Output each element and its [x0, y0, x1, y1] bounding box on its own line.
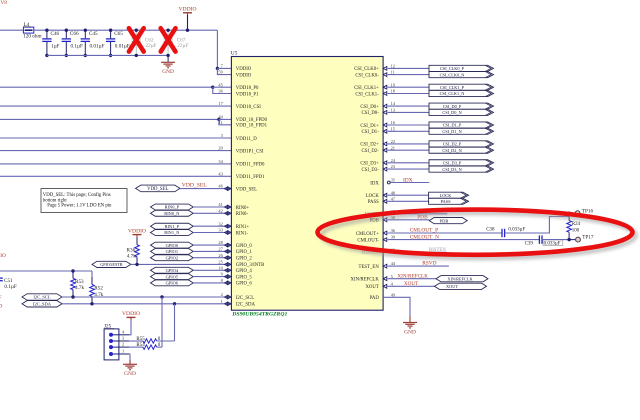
port CSI_D0_P — [429, 103, 494, 109]
connector J25 — [104, 329, 129, 360]
junction dot C65 bottom — [109, 54, 112, 57]
port CSI_CLK1_P — [429, 84, 494, 90]
svg-text:CSI_D0+: CSI_D0+ — [360, 105, 379, 110]
svg-text:DS90UB954TRGZRQ1: DS90UB954TRGZRQ1 — [231, 312, 287, 317]
pin 36 CMLOUT+ label — [356, 228, 396, 237]
svg-text:IO: IO — [0, 253, 6, 259]
pin arrow CSI_D1_N — [383, 129, 387, 133]
wire elbow to pin 59 VDDIO — [217, 68, 231, 74]
pin arrow RIN1_N — [224, 231, 228, 235]
pin arrow RIN0_P — [224, 205, 228, 209]
svg-text:CSI_D3+: CSI_D3+ — [360, 162, 379, 167]
junction dot VDD18 pair — [211, 86, 214, 89]
svg-text:CMLOUT+: CMLOUT+ — [356, 232, 379, 237]
pin 23 CSI_D3- label — [361, 164, 395, 173]
pin 59 VDDIO label — [218, 70, 251, 79]
pin 13 CSI_D0- label — [361, 108, 395, 117]
pin arrow CSI_D2_N — [383, 148, 387, 152]
port RIN0_N — [151, 210, 194, 216]
svg-text:GPIO_1: GPIO_1 — [236, 250, 253, 255]
svg-text:C38: C38 — [486, 227, 495, 232]
pin arrow GPIO2 — [224, 256, 228, 260]
pin arrow LOCK — [383, 193, 387, 197]
svg-text:1µF: 1µF — [51, 43, 60, 49]
junction dot C62 bottom — [135, 54, 138, 57]
pin arrow GPIO1 — [224, 250, 228, 254]
junction dot C67 top — [166, 29, 169, 32]
pin 8 GPIO_6 label — [221, 278, 253, 287]
wire PAD to ground — [383, 297, 410, 317]
wire VDD11_FPD0 rail to pin 34 — [0, 163, 231, 165]
junction dot C46 top — [45, 29, 48, 32]
svg-text:U5: U5 — [231, 51, 238, 57]
svg-text:CSI_CLK1_P: CSI_CLK1_P — [440, 85, 465, 90]
svg-text:VDD_18_FPD1: VDD_18_FPD1 — [236, 124, 268, 129]
junction dot C67 bottom — [166, 54, 169, 57]
svg-text:PASS: PASS — [440, 199, 451, 204]
pin arrow RIN1_P — [224, 224, 228, 228]
svg-text:2: 2 — [122, 342, 124, 347]
wire GPIO4 to chip — [193, 269, 224, 271]
pin 47 PASS label — [368, 196, 396, 205]
pin arrow PASS — [383, 199, 387, 203]
port GPIO3/INTB — [92, 261, 131, 267]
svg-text:22: 22 — [391, 139, 395, 144]
svg-text:C66: C66 — [70, 31, 79, 37]
svg-text:2: 2 — [221, 292, 223, 297]
svg-text:GPIO2: GPIO2 — [166, 255, 178, 260]
svg-text:GPIO1: GPIO1 — [166, 249, 178, 254]
pin arrow GPIO5 — [224, 275, 228, 279]
svg-text:R24: R24 — [572, 222, 581, 227]
pin 39 CMLOUT- label — [357, 235, 395, 244]
pin arrow GPIO4 — [224, 268, 228, 272]
junction dot R36 on GPIO3 net — [135, 263, 138, 266]
pin arrow VDD_SEL — [224, 187, 228, 191]
pin 49 PAD label — [370, 292, 396, 301]
pin 1 I2C_SDA label — [221, 299, 256, 308]
svg-text:120 ohm: 120 ohm — [23, 34, 41, 40]
ground symbol J25 — [123, 360, 137, 377]
wire VDD11_D rail to pin 3 — [0, 137, 231, 139]
wire to TP17 — [569, 239, 575, 241]
wire CMLOUT_N from C39 to TP17 — [542, 239, 569, 241]
pin arrow XOUT — [383, 284, 387, 288]
pin 26 GPIO_2 label — [218, 253, 252, 262]
wire R55 up to SDA — [174, 304, 176, 341]
svg-text:RIN0+: RIN0+ — [236, 206, 250, 211]
junction dot R53 bottom on SCL — [71, 295, 74, 298]
wire CMLOUT_N to C39 — [388, 239, 540, 241]
wire GPIO1 to chip — [193, 250, 224, 252]
pin 16 CSI_D1+ label — [360, 120, 395, 129]
svg-text:CSI_CLK0_N: CSI_CLK0_N — [440, 72, 465, 77]
wire elbow to pin 36 VDD18_P1 — [213, 87, 232, 93]
junction dot C45 top — [84, 29, 87, 32]
pin 41 RIN0+ label — [218, 202, 249, 211]
pin arrow GPIO6 — [224, 281, 228, 285]
port XIN/REFCLK — [436, 276, 488, 282]
svg-text:12: 12 — [391, 64, 395, 69]
svg-text:GND: GND — [404, 329, 416, 335]
pin 30 BISTEN label — [362, 247, 396, 256]
red X over C62 — [129, 28, 144, 51]
svg-text:GPIO4: GPIO4 — [166, 268, 179, 273]
pin 36 VDD18_P1 label — [218, 89, 259, 98]
wire GPIO5 to chip — [193, 276, 224, 278]
wire BISTEN (DNI) — [396, 251, 447, 253]
svg-text:GPIO6: GPIO6 — [166, 281, 179, 286]
junction dot C45 bottom — [84, 54, 87, 57]
svg-text:L4: L4 — [24, 22, 30, 28]
svg-text:GPIO_4: GPIO_4 — [236, 269, 253, 274]
resistor R55 0 ohm — [129, 339, 175, 343]
wire VDD11_FPD1 rail to pin 43 — [0, 175, 231, 177]
port CSI_D2_N — [429, 147, 494, 153]
power symbol VDDIO for R36 — [128, 228, 146, 237]
port I2C_SDA — [22, 301, 62, 307]
svg-text:GPIO_5: GPIO_5 — [236, 275, 253, 280]
svg-text:100: 100 — [572, 228, 580, 233]
pin 5 XIN/REFCLK label — [351, 274, 394, 283]
svg-text:CSI_D2_N: CSI_D2_N — [442, 148, 461, 153]
wire VDD_18_FPD0 rail — [0, 118, 219, 120]
svg-text:0.1µF: 0.1µF — [4, 284, 16, 290]
svg-text:D: D — [0, 303, 2, 309]
svg-text:C39: C39 — [525, 242, 534, 247]
svg-text:C45: C45 — [89, 31, 98, 37]
wire PASS — [388, 200, 429, 202]
wire VDD_SEL to pin 46 — [180, 188, 224, 190]
wire stub pin 45 — [213, 86, 232, 88]
svg-text:R55: R55 — [136, 337, 145, 342]
pin 25 GPIO_3/INTB label — [218, 260, 264, 269]
pin arrow CSI_CLK1_P — [383, 85, 387, 89]
wire decoupling ground rail — [47, 54, 168, 56]
wire J25 pin1 to ground — [129, 354, 130, 364]
capacitor C39 0.033uF — [525, 235, 563, 246]
pin 35 IDX label — [370, 178, 396, 187]
svg-text:GPIO_6: GPIO_6 — [236, 282, 253, 287]
pin arrow PDB — [383, 218, 387, 222]
wire RIN0_N to chip — [193, 212, 224, 214]
resistor R36 4.7k pull-up — [135, 237, 140, 264]
capacitor C62 22uF (DNI, greyed) — [132, 30, 157, 55]
svg-text:VDD18_P1: VDD18_P1 — [236, 92, 259, 97]
svg-text:21: 21 — [391, 145, 395, 150]
svg-text:I2C_SCL: I2C_SCL — [236, 296, 254, 301]
capacitor C66 0.1µF — [62, 30, 83, 55]
capacitor C45 0.01µF — [81, 30, 105, 55]
wire GPIO0 to chip — [193, 244, 224, 246]
port I2C_SCL — [22, 294, 62, 300]
port CSI_D1_N — [429, 128, 494, 134]
svg-text:4.7k: 4.7k — [127, 253, 136, 259]
wire LOCK — [388, 194, 429, 196]
pin 17 VDD18_CSI label — [218, 101, 261, 110]
pin arrow CSI_D3_P — [383, 161, 387, 165]
capacitor C67 22uF (DNI, greyed) — [163, 30, 188, 55]
wire CSI_CLK1_P — [388, 86, 429, 88]
wire CSI_D1_P — [388, 124, 429, 126]
ferrite bead L4 — [23, 27, 33, 33]
svg-text:VDD11_D: VDD11_D — [236, 137, 257, 142]
svg-text:VDDIO: VDDIO — [236, 73, 252, 78]
svg-text:CSI_D1+: CSI_D1+ — [360, 124, 379, 129]
svg-text:CSI_CLK1_N: CSI_CLK1_N — [440, 91, 465, 96]
wire VDDIO stem — [187, 15, 189, 30]
svg-text:XIN/REFCLK: XIN/REFCLK — [447, 276, 473, 281]
svg-text:CSI_D0_N: CSI_D0_N — [442, 110, 461, 115]
pin 15 CSI_D1- label — [361, 126, 395, 135]
svg-text:CSI_D2-: CSI_D2- — [361, 149, 379, 154]
pin arrow CSI_CLK0_N — [383, 73, 387, 77]
pin 14 CSI_D0+ label — [360, 101, 395, 110]
svg-text:GND: GND — [162, 69, 174, 75]
capacitor C46 1µF — [42, 30, 59, 55]
wire CSI_D3_N — [388, 168, 429, 170]
pin bubble IDX — [387, 181, 390, 184]
pin arrow CSI_D1_P — [383, 123, 387, 127]
junction dot C65 top — [109, 29, 112, 32]
svg-text:R52: R52 — [94, 286, 103, 292]
svg-text:GND: GND — [124, 371, 136, 377]
pin 44 TEST_EN label — [359, 261, 396, 270]
svg-text:4.7k: 4.7k — [75, 285, 84, 291]
pin arrow RIN0_N — [224, 211, 228, 215]
pin arrow CSI_D3_N — [383, 167, 387, 171]
svg-text:22µF: 22µF — [146, 43, 157, 49]
svg-text:I2C_SDA: I2C_SDA — [33, 302, 52, 307]
svg-text:XIN/REFCLK: XIN/REFCLK — [351, 278, 380, 283]
pin 24 CSI_D3+ label — [360, 158, 395, 167]
svg-text:XOUT: XOUT — [365, 285, 378, 290]
pin arrow CSI_D0_P — [383, 104, 387, 108]
wire CSI_D2_N — [388, 149, 429, 151]
port CSI_CLK0_P — [429, 65, 494, 71]
port CSI_CLK1_N — [429, 90, 494, 96]
svg-text:F: F — [0, 295, 2, 301]
pin 27 GPIO_1 label — [218, 247, 252, 256]
svg-text:CSI_D3_N: CSI_D3_N — [442, 167, 461, 172]
svg-text:11: 11 — [391, 70, 395, 75]
resistor R24 100 — [567, 213, 572, 239]
port CSI_D2_P — [429, 141, 494, 147]
port CSI_D3_N — [429, 166, 494, 172]
pin 22 CSI_D2+ label — [360, 139, 395, 148]
svg-text:RIN0_P: RIN0_P — [165, 205, 180, 210]
svg-text:I2C_SDA: I2C_SDA — [236, 303, 256, 308]
svg-text:GPIO_2: GPIO_2 — [236, 257, 253, 262]
svg-text:CSI_D1-: CSI_D1- — [361, 130, 379, 135]
test point TP17 — [576, 237, 581, 242]
ground symbol below C67 — [161, 55, 175, 75]
port XOUT — [435, 283, 487, 289]
test point TP16 — [575, 211, 580, 216]
port GPIO2 — [151, 255, 194, 261]
wire RIN1_N to chip — [193, 232, 224, 234]
svg-text:11: 11 — [219, 120, 223, 125]
pin 12 CSI_CLK0+ label — [354, 64, 395, 73]
junction dot VDDIO rail — [186, 29, 189, 32]
pin 18 CSI_CLK1- label — [355, 89, 395, 98]
pin 32 RIN1+ label — [218, 221, 249, 230]
ground symbol PAD — [403, 317, 417, 336]
wire XIN/REFCLK — [388, 278, 436, 280]
svg-text:R54: R54 — [136, 343, 145, 348]
junction dot C66 top — [65, 29, 68, 32]
IC U5 DS90UB954 body — [231, 57, 383, 311]
pin arrow CSI_CLK0_P — [383, 67, 387, 71]
svg-text:CSI_D2+: CSI_D2+ — [360, 143, 379, 148]
pin 2 I2C_SCL label — [221, 292, 255, 301]
svg-text:PASS: PASS — [368, 200, 379, 205]
note box: VDD_SEL config text — [41, 189, 127, 213]
svg-text:GPIO5: GPIO5 — [166, 274, 179, 279]
svg-text:CSI_D0_P: CSI_D0_P — [443, 104, 462, 109]
svg-text:1: 1 — [122, 349, 124, 354]
wire V8 rail into L4 — [0, 29, 23, 31]
pin 19 CSI_CLK1+ label — [354, 82, 396, 91]
svg-text:VDDIO: VDDIO — [128, 228, 146, 234]
wire VDD18_CSI rail to pin 17 — [0, 105, 231, 107]
pin 48 LOCK label — [366, 190, 396, 199]
port RIN1_N — [151, 230, 194, 236]
svg-text:CSI_CLK0+: CSI_CLK0+ — [354, 67, 379, 72]
svg-text:VDD_18_FPD0: VDD_18_FPD0 — [236, 118, 268, 123]
pin 3 VDD11_D label — [221, 133, 258, 142]
svg-text:R53: R53 — [75, 279, 84, 285]
svg-text:TEST_EN: TEST_EN — [359, 265, 380, 270]
wire stub pin 7 VDDIO — [217, 67, 231, 69]
wire TEST_EN RSVD — [388, 265, 449, 267]
pin 7 VDDIO label — [221, 64, 252, 73]
junction dot C46 bottom — [45, 54, 48, 57]
wire pull-up top rail from C51 — [0, 270, 92, 272]
junction dot C66 bottom — [65, 54, 68, 57]
pin 20 VDD1P1_CSI label — [218, 146, 264, 155]
pin arrow CSI_CLK1_N — [383, 92, 387, 96]
power symbol VDDIO for J25 — [122, 311, 140, 320]
svg-text:CMLOUT-: CMLOUT- — [357, 238, 379, 243]
pin 43 VDD11_FPD1 label — [218, 171, 265, 180]
pin arrow CMLOUT+ — [383, 231, 387, 235]
svg-text:0.033µF: 0.033µF — [544, 242, 561, 247]
pin 42 RIN0- label — [218, 208, 248, 217]
wire MODE (DNI) — [396, 213, 448, 215]
svg-text:GPIO3/INTB: GPIO3/INTB — [100, 262, 123, 267]
wire VDD1P1_CSI rail to pin 20 — [0, 150, 231, 152]
wire VDDIO to J25 pin 4 — [129, 320, 131, 335]
wire I2C_SCL to pin 2 — [62, 296, 224, 298]
pin 4 XOUT label — [365, 281, 393, 290]
svg-text:22µF: 22µF — [177, 43, 188, 49]
wire CMLOUT_P from C38 to riser — [505, 217, 569, 234]
svg-text:VDD_SEL: VDD_SEL — [182, 182, 207, 188]
pin arrow I2C_SCL — [224, 295, 228, 299]
resistor R54 0 ohm — [129, 345, 162, 349]
svg-text:Page 5 Power; 1.1V LDO EN pin: Page 5 Power; 1.1V LDO EN pin — [47, 204, 112, 209]
junction dot SCL to J25 — [160, 295, 163, 298]
port CSI_D0_N — [429, 109, 494, 115]
svg-text:CSI_CLK0_P: CSI_CLK0_P — [440, 66, 465, 71]
wire VDD18_P0 rail — [0, 86, 213, 88]
pin 11 VDD_18_FPD1 label — [219, 120, 268, 129]
svg-text:42: 42 — [218, 208, 222, 213]
svg-text:VDD_SEL: VDD_SEL — [147, 187, 168, 192]
wire CMLOUT_P to C38 — [388, 232, 502, 234]
pin arrow TEST_EN — [383, 264, 387, 268]
wire CSI_CLK0_N — [388, 74, 429, 76]
wire GPIO6 to chip — [193, 282, 224, 284]
wire IDX — [391, 182, 430, 184]
svg-text:VDD18_CSI: VDD18_CSI — [236, 105, 261, 110]
pin 10 GPIO_4 label — [218, 265, 252, 274]
power symbol VDDIO top — [178, 6, 196, 15]
port PDB — [429, 218, 467, 224]
port RIN1_P — [151, 223, 194, 229]
pin arrow CSI_D2_P — [383, 142, 387, 146]
pin arrow GPIO0 — [224, 243, 228, 247]
svg-text:1: 1 — [221, 299, 223, 304]
pin 45 VDD18_P0 label — [218, 82, 259, 91]
svg-text:RIN0_N: RIN0_N — [164, 211, 180, 216]
wire CSI_D2_P — [388, 143, 429, 145]
svg-text:RIN1+: RIN1+ — [236, 225, 250, 230]
pin 40 VDD_18_FPD0 label — [218, 115, 267, 124]
capacitor C51 (cut off at left edge) — [0, 278, 17, 290]
pin 9 GPIO_5 label — [221, 272, 253, 281]
svg-text:CSI_D3-: CSI_D3- — [361, 168, 379, 173]
wire CSI_CLK0_P — [388, 67, 429, 69]
svg-text:VDD11_FPD0: VDD11_FPD0 — [236, 163, 265, 168]
svg-text:0.01µF: 0.01µF — [90, 43, 105, 49]
svg-text:PDB: PDB — [440, 218, 449, 223]
capacitor C38 0.033uF — [486, 227, 525, 237]
junction dot pin7 feed — [216, 67, 219, 70]
wire RIN0_P to chip — [193, 206, 224, 208]
junction dot C62 top — [135, 29, 138, 32]
port VDD_SEL — [136, 185, 180, 192]
port GPIO5 — [151, 274, 194, 280]
svg-text:GPIO_0: GPIO_0 — [236, 244, 253, 249]
junction dot R24 top — [567, 212, 570, 215]
svg-text:GPIO_3/INTB: GPIO_3/INTB — [236, 263, 265, 268]
junction dot SDA to J25 — [173, 302, 176, 305]
svg-text:CSI_D0-: CSI_D0- — [361, 111, 379, 116]
junction dot R52 bottom on SDA — [90, 302, 93, 305]
svg-text:RSVD: RSVD — [422, 260, 436, 266]
capacitor C65 0.01µF — [106, 30, 130, 55]
wire I2C_SDA to pin 1 — [62, 303, 224, 305]
pin 37 MODE label — [365, 209, 396, 218]
port GPIO4 — [151, 267, 194, 273]
resistor R53 4.7k — [71, 271, 76, 297]
port CSI_D1_P — [429, 122, 494, 128]
svg-text:CSI_CLK1+: CSI_CLK1+ — [354, 86, 379, 91]
highlight ellipse red — [318, 210, 633, 255]
pin 34 VDD11_FPD0 label — [218, 159, 265, 168]
svg-text:VDDIO: VDDIO — [122, 311, 140, 317]
svg-text:CSI_D3_P: CSI_D3_P — [443, 161, 462, 166]
wire CSI_CLK1_N — [388, 93, 429, 95]
wire GPIO2 to chip — [193, 257, 224, 259]
wire CSI_D1_N — [388, 130, 429, 132]
port GPIO1 — [151, 248, 194, 254]
svg-text:CSI_D2_P: CSI_D2_P — [443, 142, 462, 147]
pin 28 GPIO_0 label — [218, 240, 252, 249]
wire PDB — [388, 219, 430, 221]
